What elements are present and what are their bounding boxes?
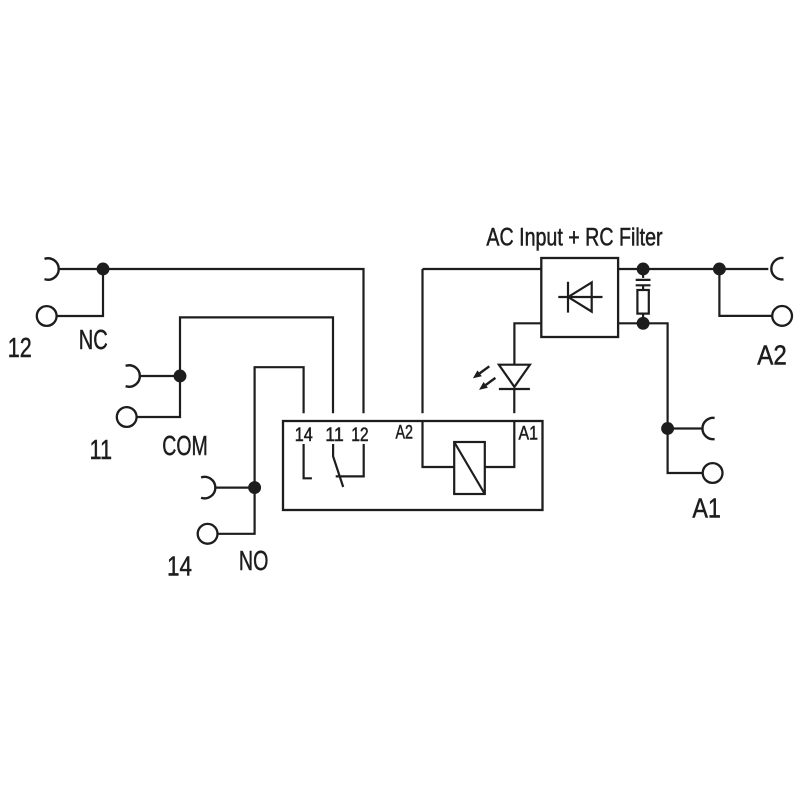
- diode inside filter box: [558, 296, 602, 298]
- wire COM branch to terminal 11: [137, 376, 180, 417]
- junction NO: [248, 481, 261, 494]
- junction filter top: [637, 263, 650, 276]
- svg-text:COM: COM: [162, 430, 208, 461]
- wire NO stub: [215, 487, 254, 489]
- wire COM stub: [140, 375, 180, 377]
- junction filter bottom: [637, 317, 650, 330]
- terminal clip arc NO row: [201, 477, 215, 498]
- junction A1: [661, 422, 674, 435]
- svg-text:NO: NO: [239, 545, 269, 576]
- LED light arrow 2: [486, 378, 496, 385]
- wire filter box output top: [618, 268, 768, 270]
- svg-text:12: 12: [8, 332, 32, 363]
- terminal clip arc NC row: [45, 258, 59, 279]
- relay coil: [454, 442, 485, 494]
- junction A2: [713, 263, 726, 276]
- terminal circle 14: [198, 524, 218, 544]
- svg-text:11: 11: [325, 425, 344, 446]
- capacitor C: [642, 269, 644, 278]
- relay module box: [283, 421, 543, 510]
- wire A1 branch to circle: [668, 429, 703, 474]
- svg-text:14: 14: [167, 551, 192, 582]
- wire relay pin A2 to coil: [423, 269, 455, 467]
- junction NC: [97, 263, 110, 276]
- terminal clip arc A1: [702, 418, 714, 439]
- wire A1 stub: [668, 427, 703, 429]
- wire filter box to LED: [514, 323, 541, 364]
- svg-text:A1: A1: [692, 493, 721, 524]
- terminal circle 11: [117, 407, 137, 427]
- contact 12 (NC): [336, 444, 364, 476]
- svg-text:11: 11: [90, 434, 113, 465]
- LED indicator: [499, 365, 530, 387]
- terminal circle A2: [772, 306, 792, 326]
- svg-text:12: 12: [351, 425, 369, 446]
- svg-text:14: 14: [295, 425, 313, 446]
- wire NC branch to terminal 12: [57, 269, 103, 316]
- terminal clip arc COM row: [126, 365, 140, 386]
- LED light arrow 1: [480, 366, 490, 373]
- contact 14 (NO): [304, 444, 312, 478]
- wire A2 branch to circle: [719, 269, 772, 316]
- wire coil to relay pin A1: [485, 422, 515, 467]
- svg-text:A2: A2: [757, 340, 787, 371]
- svg-text:A2: A2: [396, 423, 414, 444]
- wire NC net top: [59, 269, 364, 413]
- terminal clip arc A2: [771, 258, 783, 279]
- terminal circle A1: [703, 463, 723, 483]
- wire filter box to A2 pin: [423, 268, 542, 270]
- wire NO net to relay pin 14: [255, 367, 304, 487]
- junction COM: [174, 370, 187, 383]
- svg-text:A1: A1: [519, 424, 539, 445]
- AC input + RC filter box: [541, 258, 618, 337]
- terminal circle 12: [37, 306, 57, 326]
- wire NO branch to terminal 14: [218, 488, 255, 534]
- svg-text:AC Input + RC Filter: AC Input + RC Filter: [486, 224, 662, 251]
- wire filter bottom to A1: [618, 323, 668, 428]
- resistor R: [642, 285, 644, 290]
- contact 11 common arm: [333, 444, 343, 487]
- wire COM net to relay pin 11: [180, 317, 333, 413]
- svg-text:NC: NC: [79, 324, 108, 355]
